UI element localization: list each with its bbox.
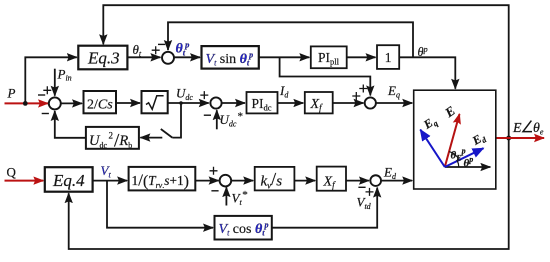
- sign plus P summer top: [43, 86, 51, 94]
- wire 1-box output theta-p to vector box: [399, 57, 455, 88]
- svg-text:1: 1: [385, 50, 392, 65]
- wire Eq.4 output: [93, 180, 128, 182]
- block Vt sin: [202, 46, 259, 69]
- wire Vt-ref stub: [225, 187, 227, 205]
- block Xf bottom: [317, 167, 346, 191]
- wire outer feedback bottom to Eq.4: [69, 138, 509, 249]
- wire P summer output: [61, 102, 82, 104]
- wire Pin input: [54, 69, 56, 96]
- block 1/(Trv s+1): [129, 167, 196, 191]
- svg-text:Vt sin θtp: Vt sin θtp: [206, 50, 254, 67]
- wire PIpll output: [347, 56, 376, 58]
- switch blade: [161, 129, 173, 138]
- sign minus V summer bottom: [211, 190, 218, 192]
- sign plus Eq summer left: [352, 92, 360, 100]
- sign minus theta summer top: [158, 43, 165, 45]
- wire Vt-sin output to PIpll: [259, 56, 310, 58]
- wire Udc-ref stub: [216, 110, 218, 129]
- wire outer feedback top to Eq.3: [103, 5, 508, 138]
- wire kv/s output: [294, 180, 315, 182]
- sign minus P summer left: [38, 94, 45, 96]
- block kv/s: [255, 167, 295, 191]
- block Eq.4: [45, 167, 93, 192]
- summer P: [49, 97, 61, 109]
- svg-text:P: P: [7, 86, 16, 101]
- wire Udc summer output: [222, 102, 245, 104]
- sign minus P summer bottom: [42, 113, 49, 115]
- wire Eq.3 output: [127, 56, 160, 58]
- wire Xf2 output to Ed summer: [346, 180, 369, 182]
- wire Vt-cos output to Ed summer: [272, 188, 377, 228]
- summer Udc: [210, 97, 221, 108]
- node output junction: [506, 136, 511, 141]
- summer Ed: [370, 175, 381, 186]
- wire 2/Cs output: [116, 102, 140, 104]
- sign plus theta summer left: [152, 46, 160, 54]
- block PI dc: [247, 92, 278, 113]
- arc theta-E: [449, 152, 459, 160]
- vector diagram contents: [420, 114, 490, 167]
- axis arrow theta-p: [445, 166, 491, 168]
- sign minus Ed summer left: [358, 186, 365, 188]
- wire U2R feedback to P summer: [55, 111, 86, 138]
- wire theta summer output: [174, 56, 200, 58]
- wire inner feedback theta-p to summer: [168, 22, 413, 57]
- wire sqrt output to Udc summer: [168, 102, 209, 104]
- sign minus Udc summer bottom: [204, 114, 211, 116]
- sign plus V summer left: [210, 167, 218, 175]
- wire P input (red): [5, 102, 49, 104]
- wire Xf output to Eq summer: [333, 102, 364, 104]
- block PI pll: [311, 46, 347, 68]
- wire E output (red): [496, 137, 544, 139]
- node P junction: [23, 101, 28, 106]
- wire Trv output: [195, 180, 218, 182]
- label block sqrt: [146, 96, 164, 110]
- wire Q input (red): [5, 180, 44, 182]
- sign plus Ed summer bottom: [366, 188, 374, 196]
- node Udc junction: [179, 101, 183, 105]
- vector Eq (blue): [420, 130, 445, 167]
- summer theta: [162, 52, 174, 64]
- svg-text:Eq.3: Eq.3: [87, 49, 120, 68]
- summer V: [220, 175, 232, 187]
- wire Ed to vector box: [381, 180, 412, 182]
- vector Ed (blue): [445, 148, 484, 167]
- block Eq.3: [78, 46, 127, 70]
- wire switch to U2R box: [140, 137, 162, 139]
- wire Vt-sin branch to Eq summer: [280, 57, 371, 95]
- svg-text:2/Cs: 2/Cs: [87, 97, 113, 112]
- wire V summer output: [231, 180, 254, 182]
- svg-text:Eq.4: Eq.4: [52, 171, 85, 190]
- svg-text:Q: Q: [7, 165, 17, 180]
- wire PIdc output: [278, 102, 304, 104]
- wire Eq to vector box: [376, 102, 413, 104]
- arc theta-p: [457, 161, 459, 167]
- block vector diagram: [414, 90, 496, 189]
- block 2/Cs: [84, 91, 117, 113]
- sign plus Eq summer top: [359, 85, 367, 93]
- wire Udc branch down to switch: [172, 103, 181, 138]
- wire P to Eq.3 input: [25, 57, 77, 103]
- svg-text:Vt cos θtp: Vt cos θtp: [219, 220, 269, 237]
- block U2/Rb: [86, 127, 139, 149]
- block sqrt: [142, 91, 168, 113]
- vector E (red): [445, 114, 460, 167]
- sign plus Udc summer left: [200, 91, 208, 99]
- wire Vt branch to Vt-cos box: [107, 181, 213, 228]
- summer Eq: [365, 97, 376, 108]
- block Xf top: [305, 92, 333, 113]
- block Vt cos: [215, 216, 272, 240]
- block 1: [377, 45, 399, 69]
- svg-text:E: E: [512, 121, 522, 136]
- summer signs: [38, 44, 374, 196]
